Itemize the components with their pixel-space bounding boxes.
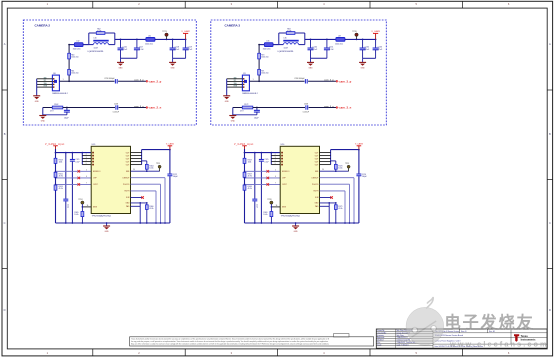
svg-text:Drawn By:: Drawn By: — [377, 330, 385, 332]
node dot — [356, 39, 358, 41]
wire: filter output rail — [115, 38, 146, 40]
svg-text:49.9k: 49.9k — [149, 208, 153, 210]
svg-text:1500 ohm: 1500 ohm — [71, 73, 79, 75]
pin stub — [131, 155, 142, 157]
wire: cap bottoms — [121, 57, 137, 59]
svg-text:OUT: OUT — [126, 155, 130, 157]
svg-text:cam_3_n: cam_3_n — [339, 106, 351, 110]
node dot — [244, 152, 246, 154]
wire: cap bottoms — [311, 57, 327, 59]
svg-text:0.015uF: 0.015uF — [113, 111, 119, 113]
svg-text:GND: GND — [234, 77, 237, 79]
node dot — [258, 44, 260, 46]
pin stub — [271, 161, 280, 163]
resistor R60 1500 ohm — [68, 53, 71, 59]
ferrite bead L31 1000 ohm — [146, 38, 155, 42]
svg-text:PGOOD: PGOOD — [123, 184, 130, 186]
svg-text:4.02k: 4.02k — [287, 31, 291, 33]
wire: row 2 stub down — [232, 108, 234, 116]
node dot — [185, 39, 187, 41]
svg-text:cam_2_p: cam_2_p — [149, 79, 161, 83]
wire: ILIM stub — [320, 197, 332, 199]
svg-text:16: 16 — [87, 205, 89, 207]
wire: connector shield bus — [36, 79, 38, 96]
resistor R172 49.9 — [242, 106, 253, 109]
svg-text:Modified:: Modified: — [377, 340, 384, 342]
svg-text:49.9k: 49.9k — [248, 176, 252, 178]
node dot — [65, 152, 67, 154]
svg-text:1500 ohm: 1500 ohm — [261, 73, 269, 75]
wire: RGTH route — [320, 190, 346, 192]
svg-text:OUT: OUT — [315, 158, 319, 160]
wire: OUT pin bus — [330, 150, 332, 165]
connector pin wire 3 — [37, 81, 53, 83]
test point TP25 — [159, 168, 161, 171]
wire: IN pin bus — [270, 153, 272, 165]
wire: right cap bottoms — [173, 57, 186, 59]
svg-text:100pF: 100pF — [362, 176, 367, 178]
resistor R162 49.9 — [52, 106, 63, 109]
svg-text:L36: L36 — [284, 38, 287, 40]
TI logo — [514, 334, 536, 342]
RL parallel network: resistor R63 and inductor L36 — [278, 33, 280, 45]
node dot — [72, 152, 74, 154]
svg-text:TPS25940AQRVCRQ1: TPS25940AQRVCRQ1 — [281, 214, 301, 217]
connector pin wire 4 — [227, 83, 243, 85]
svg-text:0.015uF: 0.015uF — [303, 111, 309, 113]
wire: bead to RL network — [273, 44, 279, 46]
node dot — [326, 39, 328, 41]
svg-text:J11: J11 — [243, 73, 246, 75]
no-connect X — [267, 177, 270, 180]
no-connect X — [78, 183, 81, 186]
pin stub — [271, 155, 280, 157]
pin stub — [131, 164, 142, 166]
dashed group box CAMERA 2 — [23, 20, 196, 125]
ground — [229, 115, 236, 117]
wire: connector output — [59, 80, 114, 82]
svg-text:PWR: PWR — [44, 86, 47, 88]
svg-text:Texas: Texas — [521, 334, 529, 338]
capacitor C131 4.7uF — [326, 39, 328, 48]
svg-text:TP25: TP25 — [156, 163, 160, 165]
node dot — [310, 39, 312, 41]
wire: feeder to IC — [56, 152, 92, 154]
capacitor C133 4.7uF — [375, 39, 377, 48]
wire: PGOOD route — [131, 183, 161, 185]
svg-text:ILIM: ILIM — [126, 197, 130, 199]
inductor L30 10uH — [93, 40, 108, 42]
svg-text:100pF: 100pF — [173, 176, 178, 178]
resistor R167 49.9k — [243, 172, 246, 177]
wire: IN pin bus — [81, 153, 83, 165]
wire: SNS row — [320, 170, 349, 172]
wire: filter output rail — [305, 38, 336, 40]
wire: control row 2 — [56, 177, 92, 179]
svg-text:L31: L31 — [148, 35, 151, 37]
svg-text:CAMERA 3: CAMERA 3 — [225, 24, 241, 28]
svg-text:240pF: 240pF — [64, 118, 69, 120]
svg-text:GND: GND — [119, 67, 124, 69]
node dot — [375, 39, 377, 41]
svg-text:L32: L32 — [76, 41, 79, 43]
svg-text:SCL: SCL — [234, 80, 237, 82]
node dot — [55, 152, 57, 154]
connector pin wire 3 — [227, 81, 243, 83]
svg-text:10uH: 10uH — [94, 48, 99, 50]
svg-text:L30: L30 — [94, 38, 97, 40]
svg-text:DEVSLP: DEVSLP — [312, 177, 320, 179]
svg-text:0.1uF: 0.1uF — [75, 161, 79, 163]
svg-text:TP29: TP29 — [345, 163, 349, 165]
wire: input node to filter — [69, 44, 74, 46]
capacitor C121 0.1uF — [71, 153, 73, 223]
wire: ILIM stub — [131, 197, 143, 199]
wire: OUT to V_CAM rail — [331, 149, 359, 151]
svg-text:10.0k: 10.0k — [149, 168, 153, 170]
node dot — [68, 44, 70, 46]
resistor R165 10.0k — [81, 212, 84, 217]
svg-text:GND: GND — [361, 67, 366, 69]
wire: PAD stub — [320, 205, 330, 207]
svg-text:OUT: OUT — [315, 152, 319, 154]
dashed group box CAMERA 3 — [211, 20, 386, 125]
svg-text:49.9k: 49.9k — [338, 208, 342, 210]
svg-text:OVST: OVST — [93, 184, 98, 186]
node dot — [166, 39, 168, 41]
svg-text:PWR: PWR — [234, 86, 237, 88]
svg-text:GND: GND — [309, 67, 314, 69]
no-connect X — [78, 170, 81, 173]
resistor R161 49.9k — [54, 172, 57, 177]
capacitor C132 0.1uF — [362, 39, 364, 48]
svg-text:V_CAM3: V_CAM3 — [355, 143, 364, 146]
wire: control row 1 — [56, 170, 92, 172]
node dot — [258, 80, 260, 82]
no-connect X — [141, 196, 144, 199]
svg-text:cam_3_p: cam_3_p — [339, 79, 351, 83]
svg-text:1000 ohm: 1000 ohm — [335, 43, 343, 45]
svg-text:C358: C358 — [304, 103, 308, 105]
IC U19 TPS25940AQRVCRQ1 — [91, 146, 130, 213]
wire: bead to RL network — [83, 44, 89, 46]
svg-text:RGTH: RGTH — [125, 191, 131, 193]
connector pin wire 5 — [227, 86, 243, 88]
wire: to net flag — [118, 80, 146, 82]
wire: V_CAM rail vertical — [358, 150, 360, 223]
connector pin wire 2 — [37, 78, 53, 80]
wire: row 2 stub down — [42, 108, 44, 116]
svg-text:49.9k: 49.9k — [59, 188, 63, 190]
no-connect X — [267, 170, 270, 173]
wire: bottom ground rail — [245, 222, 359, 224]
wire: GND stub — [131, 202, 147, 204]
node dot — [68, 80, 70, 82]
IC U20 TPS25940AQRVCRQ1 — [280, 146, 319, 213]
capacitor C220 240pF — [66, 108, 68, 111]
resistor R71 1500 ohm — [258, 69, 261, 75]
pin stub — [131, 158, 142, 160]
wire: to V_CAM rail — [155, 38, 186, 40]
resistor R62 4.02k — [96, 32, 105, 35]
resistor R163 49.9k — [54, 185, 57, 190]
no-connect X — [267, 183, 270, 186]
pin stub — [82, 161, 91, 163]
wire: input rail vertical — [55, 149, 57, 223]
ground — [172, 58, 174, 62]
pin stub — [320, 161, 331, 163]
wire: OUT to V_CAM rail — [142, 149, 170, 151]
wire: input rail vertical — [244, 149, 246, 223]
svg-text:C127: C127 — [256, 204, 258, 208]
svg-text:TPS25940AQRVCRQ1: TPS25940AQRVCRQ1 — [92, 214, 112, 217]
test point TP29 — [348, 168, 350, 171]
svg-text:LQH3NPN100MJRL: LQH3NPN100MJRL — [278, 51, 294, 53]
ferrite bead L35 1500 ohm — [264, 43, 273, 47]
node dot — [261, 152, 263, 154]
wire: row 2 — [43, 107, 53, 109]
svg-text:C: C — [4, 221, 6, 225]
IC pin name labels — [93, 152, 130, 208]
wire: connector output — [249, 80, 304, 82]
connector J11 MM8030-0400LB-Y — [242, 75, 249, 91]
ground — [310, 58, 312, 62]
svg-text:TP26: TP26 — [352, 31, 356, 33]
svg-text:OUT: OUT — [126, 164, 130, 166]
wire: control row 1 — [245, 170, 281, 172]
svg-text:OUT: OUT — [126, 158, 130, 160]
capacitor C318 1000pF — [304, 79, 306, 83]
watermark: elecfans logo circle — [406, 297, 444, 345]
wire: DEVSLP route — [320, 177, 355, 179]
svg-text:10.0k: 10.0k — [263, 214, 267, 216]
wire: input node to filter — [259, 44, 264, 46]
resistor R159 100k — [243, 158, 246, 163]
svg-text:24: 24 — [322, 169, 324, 171]
ground — [295, 223, 297, 226]
no-connect X — [330, 196, 333, 199]
svg-text:GND: GND — [35, 101, 40, 103]
pin stub — [320, 158, 331, 160]
svg-text:Scale:: Scale: — [377, 344, 382, 346]
svg-text:cam_3_p: cam_3_p — [324, 80, 334, 82]
svg-text:V_CAM2: V_CAM2 — [181, 30, 190, 33]
svg-text:www.elecfans.com: www.elecfans.com — [449, 340, 549, 349]
svg-text:R162: R162 — [54, 104, 58, 106]
inductor L36 10uH — [283, 40, 298, 42]
pin stub — [320, 164, 331, 166]
border grid letters — [4, 42, 551, 312]
svg-text:1000 ohm: 1000 ohm — [145, 43, 153, 45]
pin stub — [131, 152, 142, 154]
pin stub — [82, 155, 91, 157]
capacitor C358 0.015uF — [305, 105, 307, 109]
svg-text:V_CAM3: V_CAM3 — [371, 30, 380, 33]
svg-text:GND: GND — [231, 121, 236, 123]
svg-text:5/31/2017 2:40 PM: 5/31/2017 2:40 PM — [397, 340, 411, 342]
wire: feeder to IC — [245, 152, 281, 154]
svg-text:GND: GND — [225, 101, 230, 103]
resistor R164 10.0k — [146, 161, 148, 171]
svg-text:LQH3NPN100MJRL: LQH3NPN100MJRL — [88, 51, 104, 53]
svg-text:GND: GND — [171, 67, 176, 69]
svg-text:cam_2_n: cam_2_n — [134, 106, 144, 108]
wire: V_CAM rail vertical — [169, 150, 171, 223]
svg-text:cam_2_p: cam_2_p — [134, 80, 144, 82]
svg-text:10.0k: 10.0k — [74, 214, 78, 216]
ground — [362, 58, 364, 62]
svg-text:PGOOD: PGOOD — [312, 184, 319, 186]
connector J10 MM8030-0400LB-Y — [52, 75, 59, 91]
svg-text:1500 ohm: 1500 ohm — [73, 49, 81, 51]
svg-text:EN/UVLO: EN/UVLO — [93, 171, 101, 173]
wire: DEVSLP route — [131, 177, 166, 179]
pin stub — [131, 161, 142, 163]
resistor R70 1500 ohm — [258, 53, 261, 59]
svg-text:电子发烧友: 电子发烧友 — [445, 313, 535, 332]
svg-text:OUT: OUT — [315, 161, 319, 163]
wire: control row 2 — [245, 177, 281, 179]
svg-text:Checked By:: Checked By: — [377, 332, 387, 334]
svg-text:TP24: TP24 — [78, 199, 82, 201]
wire: GND stub — [320, 202, 336, 204]
resistor R158 100k — [54, 158, 57, 163]
wire: divider chain — [258, 45, 260, 82]
svg-text:RGTH: RGTH — [314, 191, 320, 193]
capacitor C126 100pF — [356, 174, 361, 177]
pin stub — [271, 164, 280, 166]
svg-text:MM8030-0400LB-Y: MM8030-0400LB-Y — [242, 93, 258, 95]
svg-text:49.9: 49.9 — [240, 110, 243, 112]
svg-text:OUT: OUT — [126, 152, 130, 154]
svg-text:B: B — [4, 132, 6, 136]
pin stub — [320, 152, 331, 154]
resistor R63 4.02k — [286, 32, 295, 35]
svg-text:GND: GND — [44, 77, 47, 79]
power flag V_CAM2 — [185, 33, 187, 39]
node dot — [362, 39, 364, 41]
node dot — [172, 39, 174, 41]
svg-text:1: 1 — [63, 79, 64, 81]
resistor R61 1500 ohm — [68, 69, 71, 75]
svg-text:ILIM: ILIM — [315, 197, 319, 199]
resistor R169 10.0k — [270, 212, 273, 217]
svg-text:GND: GND — [294, 231, 299, 233]
svg-text:4.02k: 4.02k — [97, 31, 101, 33]
svg-text:C123: C123 — [67, 204, 69, 208]
svg-text:0.1uF: 0.1uF — [264, 161, 268, 163]
svg-text:1: 1 — [253, 79, 254, 81]
RL parallel network: resistor R62 and inductor L30 — [88, 33, 90, 45]
ground — [223, 95, 230, 97]
node dot — [270, 152, 272, 154]
wire: bottom ground rail — [56, 222, 170, 224]
svg-text:J10: J10 — [53, 73, 56, 75]
node dot — [254, 152, 256, 154]
wire: divider chain — [68, 45, 70, 82]
svg-text:1500 ohm: 1500 ohm — [261, 57, 269, 59]
wire: to V_CAM rail — [345, 38, 376, 40]
capacitor C118 0.1uF — [172, 39, 174, 48]
svg-text:L35: L35 — [266, 41, 269, 43]
svg-text:10.0k: 10.0k — [338, 168, 342, 170]
wire: PGOOD route — [320, 183, 350, 185]
node dot — [66, 107, 68, 109]
svg-text:49.9: 49.9 — [50, 110, 53, 112]
capacitor C125 0.1uF — [260, 153, 262, 223]
capacitor C122 100pF — [167, 174, 172, 177]
svg-text:16: 16 — [276, 205, 278, 207]
svg-text:cam_2_n: cam_2_n — [149, 106, 161, 110]
wire: control row 3 — [56, 183, 92, 185]
wire: control row 3 — [245, 183, 281, 185]
resistor R171 49.9k — [335, 203, 337, 223]
svg-text:49.9k: 49.9k — [248, 188, 252, 190]
svg-text:49.9k: 49.9k — [59, 176, 63, 178]
capacitor C116 0.1uF — [120, 39, 122, 48]
wire: connector shield bus — [226, 79, 228, 96]
resistor R168 49.9k — [243, 185, 246, 190]
capacitor C117 4.7uF — [136, 39, 138, 48]
wire: PAD stub — [131, 205, 141, 207]
svg-text:D: D — [549, 308, 551, 312]
node dot — [136, 39, 138, 41]
title block left column texts — [377, 330, 415, 346]
ferrite bead L32 1500 ohm — [74, 43, 83, 47]
svg-text:D: D — [4, 308, 6, 312]
title block — [376, 329, 547, 348]
svg-text:100k: 100k — [59, 162, 63, 164]
svg-text:R172: R172 — [244, 104, 248, 106]
wire: MON stub — [271, 206, 280, 208]
pin stub — [320, 155, 331, 157]
capacitor C130 0.1uF — [310, 39, 312, 48]
svg-text:V_CAM2: V_CAM2 — [166, 143, 175, 146]
svg-text:MM8030-0400LB-Y: MM8030-0400LB-Y — [52, 93, 68, 95]
pin stub — [82, 158, 91, 160]
svg-text:OUT: OUT — [315, 164, 319, 166]
capacitor C258 0.015uF — [115, 105, 117, 109]
svg-text:A: A — [549, 42, 551, 46]
test point TP28 — [270, 201, 273, 204]
svg-text:cam_3_n: cam_3_n — [324, 106, 334, 108]
wire: row 2 — [233, 107, 243, 109]
IC pin name labels — [282, 152, 319, 208]
ferrite bead L37 1000 ohm — [336, 38, 345, 42]
power flag V_CAM3 — [375, 33, 377, 39]
svg-text:CAMERA 2: CAMERA 2 — [35, 24, 51, 28]
capacitor C119 4.7uF — [185, 39, 187, 48]
node dot — [81, 152, 83, 154]
svg-text:1500 ohm: 1500 ohm — [71, 57, 79, 59]
test point TP26 — [356, 36, 358, 39]
pin stub — [271, 158, 280, 160]
test point TP23 — [166, 36, 168, 39]
disclaimer text box — [130, 337, 374, 346]
node dot — [256, 107, 258, 109]
connector pin wire 5 — [37, 86, 53, 88]
wire: right cap bottoms — [363, 57, 376, 59]
svg-text:100k: 100k — [248, 162, 252, 164]
IC left IN pins — [281, 152, 283, 166]
svg-text:OUT: OUT — [315, 155, 319, 157]
svg-text:TP23: TP23 — [162, 31, 166, 33]
svg-text:B: B — [549, 132, 551, 136]
wire: OUT pin bus — [141, 150, 143, 165]
svg-text:L37: L37 — [338, 35, 341, 37]
capacitor C320 240pF — [256, 108, 258, 111]
IC left IN pins — [92, 152, 94, 166]
